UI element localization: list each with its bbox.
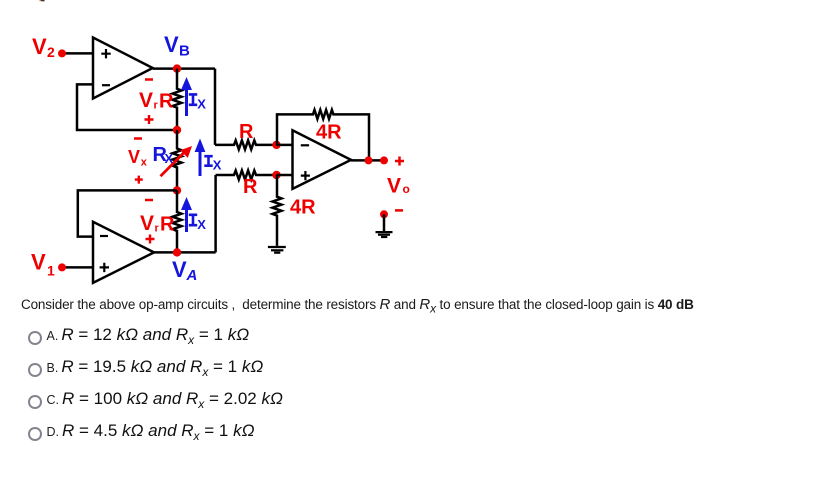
node between R1 and Rx — [173, 126, 181, 134]
wire V1 to U2 + input — [62, 266, 93, 269]
wire - terminal to ground — [383, 214, 386, 231]
label Vr R — [139, 89, 174, 113]
cropped text fragment top edge — [40, 0, 45, 1]
node VB — [173, 64, 181, 72]
label plus below lower Vr R — [146, 235, 155, 244]
label minus above Vx — [134, 137, 142, 140]
wire node to U3 + input — [277, 174, 293, 177]
label V1 — [31, 249, 55, 278]
svg-text:A: A — [186, 267, 198, 284]
svg-text:r: r — [154, 100, 159, 112]
label VA — [172, 257, 197, 284]
option D — [28, 427, 42, 441]
op-amp U1 — [93, 38, 153, 99]
node VA — [173, 248, 181, 256]
label Ix (middle) — [204, 156, 212, 166]
node feedback junction — [365, 156, 373, 164]
resistor 4R feedback — [277, 110, 369, 160]
op-amp U2 — [93, 222, 154, 283]
svg-text:1: 1 — [47, 263, 55, 279]
svg-text:X: X — [197, 97, 206, 112]
label Vx — [128, 147, 148, 168]
option B — [28, 363, 42, 377]
wire U1 output to VB corner — [153, 67, 215, 70]
svg-text:B: B — [179, 42, 190, 59]
ground G1 — [268, 247, 286, 253]
label minus output — [395, 209, 403, 212]
svg-text:V: V — [128, 147, 140, 167]
resistor R lower horizontal — [216, 171, 277, 180]
svg-text:2: 2 — [47, 44, 55, 60]
node output + terminal — [380, 156, 388, 164]
svg-text:R: R — [159, 91, 174, 113]
svg-text:V: V — [139, 89, 153, 112]
wire U1 feedback to node between R and Rx — [77, 84, 177, 130]
svg-text:X: X — [213, 158, 222, 173]
current arrow Ix (top) — [181, 77, 192, 116]
svg-text:R: R — [160, 214, 175, 236]
wire U2 feedback to node between Rx and R2 — [78, 190, 177, 236]
question text — [21, 296, 694, 316]
svg-text:V: V — [172, 257, 187, 282]
node U3 non-inverting input — [272, 171, 280, 179]
option C — [28, 395, 42, 409]
svg-text:V: V — [140, 212, 154, 235]
resistor Rx (variable) — [173, 130, 182, 190]
resistor R upper horizontal — [215, 140, 277, 149]
node U3 inverting input — [272, 141, 280, 149]
resistor R1 (upper Vr R) — [173, 69, 182, 130]
resistor 4R to ground — [273, 175, 282, 246]
node V2 terminal — [58, 49, 66, 57]
current arrow Ix (bottom) — [181, 197, 192, 232]
label minus above lower Vr R — [145, 199, 153, 202]
label plus output — [395, 157, 404, 166]
svg-text:V: V — [387, 175, 401, 198]
label plus below Vx — [135, 176, 143, 184]
wire node to U3 - input — [277, 144, 293, 147]
wire VA corner up to lower horizontal R — [214, 175, 217, 252]
svg-text:V: V — [32, 34, 47, 59]
label Vr R (lower) — [140, 212, 175, 236]
arrow across Rx — [161, 146, 193, 176]
svg-text:V: V — [164, 32, 179, 57]
label plus below Vr R — [145, 115, 154, 124]
label Ix (top) — [189, 94, 197, 104]
wire VB corner down to upper horizontal R — [214, 69, 217, 145]
current arrow Ix (middle) — [195, 139, 206, 177]
wire U2 output to VA corner — [154, 251, 216, 254]
resistor R2 (lower Vr R) — [173, 190, 182, 252]
svg-text:X: X — [165, 151, 174, 166]
svg-text:x: x — [141, 156, 148, 168]
label minus above Vr R — [145, 78, 153, 81]
node output - terminal — [380, 210, 388, 218]
label Ix (bottom) — [189, 215, 197, 225]
svg-text:R: R — [239, 121, 254, 143]
svg-text:V: V — [31, 249, 46, 274]
svg-text:4R: 4R — [290, 197, 316, 219]
label Rx — [153, 144, 174, 166]
wire V2 to U1 + input — [62, 52, 93, 55]
svg-text:4R: 4R — [316, 122, 342, 144]
ground G2 — [376, 232, 393, 237]
option A — [28, 331, 42, 345]
op-amp U3 — [293, 130, 352, 189]
node between Rx and R2 — [173, 186, 181, 194]
svg-text:r: r — [155, 223, 160, 235]
label Vo — [387, 175, 410, 198]
label V2 — [32, 34, 55, 60]
label VB — [164, 32, 190, 59]
svg-text:R: R — [243, 176, 258, 198]
wire U3 output — [351, 159, 384, 162]
svg-text:o: o — [403, 182, 410, 196]
svg-text:X: X — [197, 217, 206, 232]
node V1 terminal — [58, 263, 66, 271]
